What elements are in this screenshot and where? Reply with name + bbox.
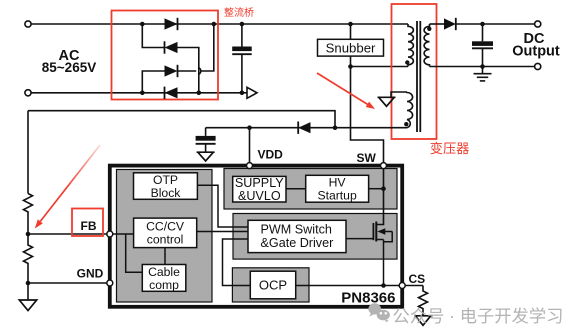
node dot primary bottom: [348, 64, 353, 69]
VDD capacitor C2: [205, 128, 207, 136]
pin GND: [107, 280, 113, 286]
diode D2: [165, 42, 178, 53]
MOSFET Q1: [346, 238, 373, 240]
top gray panel: [224, 169, 397, 210]
svg-text:SW: SW: [357, 151, 377, 165]
bulk capacitor C1: [241, 24, 243, 47]
auxiliary polarity dot: [404, 122, 408, 126]
middle gray panel: [233, 214, 397, 260]
pin VDD: [247, 163, 253, 169]
watermark icon: [368, 303, 389, 322]
wire secondary bottom rail: [430, 66, 535, 68]
node dot top-right bridge: [212, 22, 217, 27]
wire D2 anode to DC-: [178, 48, 199, 93]
secondary earth ground: [482, 67, 484, 74]
wire CC/CV to cable comp: [164, 248, 166, 265]
node dot C1 bottom: [240, 91, 245, 96]
wire FB to cable comp: [126, 234, 143, 272]
wire secondary top to output: [430, 23, 445, 25]
VDD rail wire: [206, 127, 407, 129]
transformer core: [416, 21, 418, 132]
HV Startup box: [306, 175, 369, 202]
diode D1: [165, 18, 178, 29]
wire VDD pin vertical: [249, 128, 251, 164]
svg-text:OCP: OCP: [259, 278, 287, 293]
IC PN8366 outline: [110, 166, 402, 307]
node dot VDD pin drop: [247, 125, 252, 130]
AC input terminal bottom: [25, 90, 31, 96]
svg-text:control: control: [147, 233, 184, 247]
wire MOSFET source down to CS row: [383, 240, 385, 286]
node dot source-CS: [381, 283, 386, 288]
AC input terminal top: [25, 21, 31, 27]
FB red box: [72, 209, 103, 237]
output capacitor C3: [482, 24, 484, 41]
node dot C3 bottom: [480, 64, 485, 69]
svg-text:comp: comp: [149, 278, 179, 292]
wire PWM to OCP/CS: [223, 239, 251, 286]
node dot GND: [26, 281, 31, 286]
svg-text:Output: Output: [512, 43, 560, 59]
rectifier bridge red box: [112, 11, 219, 100]
wire divider top run: [28, 111, 335, 128]
wire FB internal: [110, 233, 134, 235]
wire FB to pin: [28, 233, 108, 235]
DC output terminal bottom: [535, 63, 541, 69]
primary polarity dot: [405, 60, 409, 64]
svg-text:&UVLO: &UVLO: [238, 189, 281, 203]
PWM Switch & Gate Driver box: [248, 220, 346, 252]
bottom gray panel: [232, 268, 309, 302]
svg-text:Snubber: Snubber: [326, 40, 376, 55]
svg-text:GND: GND: [77, 267, 104, 281]
transformer red box: [392, 4, 437, 139]
OCP box: [250, 271, 295, 299]
left gray panel: [117, 170, 213, 303]
VDD cap arrow ground: [197, 152, 215, 161]
node dot top-left bridge: [140, 22, 145, 27]
resistor R1: [24, 194, 33, 235]
svg-text:85~265V: 85~265V: [42, 60, 96, 75]
SUPPLY & UVLO box: [233, 176, 286, 202]
wire bottom AC rail: [31, 92, 247, 94]
svg-text:&Gate Driver: &Gate Driver: [261, 236, 334, 250]
pin CS: [399, 283, 405, 289]
transformer primary winding: [408, 24, 413, 67]
divider ground: [27, 283, 29, 300]
wire D3 branch: [142, 71, 164, 93]
svg-text:CS: CS: [409, 272, 426, 286]
svg-text:FB: FB: [81, 219, 97, 233]
svg-text:CC/CV: CC/CV: [146, 220, 185, 234]
svg-text:PWM Switch: PWM Switch: [261, 223, 332, 237]
DC output terminal top: [535, 21, 541, 27]
svg-text:Block: Block: [151, 186, 182, 200]
node dot bottom-mid bridge: [197, 91, 202, 96]
node dot C3 top: [480, 22, 485, 27]
node dot snubber top: [348, 22, 353, 27]
wire aux top to arrow ground: [391, 92, 407, 97]
transformer auxiliary winding: [407, 92, 413, 128]
red annotation arrow (transformer): [317, 73, 368, 105]
output diode D5: [444, 18, 456, 29]
wire snubber bottom to SW: [351, 56, 384, 162]
wire OTP to PWM: [197, 185, 248, 227]
aux arrow ground: [378, 97, 396, 106]
wire diode to DC+ terminal: [456, 23, 535, 25]
OTP Block box: [134, 173, 198, 200]
node dot FB: [26, 232, 31, 237]
node dot bottom-left bridge: [140, 91, 145, 96]
node dot C1 top: [240, 22, 245, 27]
svg-text:VDD: VDD: [258, 148, 284, 162]
transformer secondary winding: [424, 24, 429, 67]
pin FB: [107, 231, 113, 237]
wire SW internal vertical: [376, 166, 383, 225]
CC/CV control box: [134, 218, 197, 248]
CS arrow ground: [414, 316, 432, 326]
primary ground arrow (open right triangle at end of bottom rail): [247, 87, 257, 98]
node dot HV-SW: [381, 186, 386, 191]
VDD rectifier diode D6: [298, 122, 310, 133]
CS external wire: [405, 285, 423, 287]
svg-text:变压器: 变压器: [430, 141, 470, 156]
wire top AC rail: [31, 23, 408, 25]
svg-text:整流桥: 整流桥: [224, 6, 254, 19]
resistor R3: [419, 286, 428, 316]
svg-text:Startup: Startup: [317, 188, 357, 202]
diode D4: [165, 87, 178, 98]
svg-text:公众号 · 电子开发学习: 公众号 · 电子开发学习: [393, 306, 564, 326]
wire D3 cathode to DC+ (with hop over vertical): [178, 70, 197, 72]
diode D3: [165, 65, 178, 76]
wire D2 branch: [142, 24, 164, 48]
wire HV to SW line: [369, 188, 384, 190]
pin SW: [381, 163, 387, 169]
wire primary bottom: [351, 66, 409, 68]
Cable comp box: [142, 265, 186, 292]
node dot divider tap: [333, 125, 338, 130]
wire OCP to CS pin: [296, 285, 402, 287]
wire SUPPLY to HV: [286, 188, 306, 190]
resistor R2: [24, 234, 33, 283]
secondary polarity dot: [427, 27, 431, 31]
divider wire left vertical: [27, 111, 29, 194]
snubber box: [318, 39, 384, 56]
wire CC/CV to PWM: [197, 231, 248, 233]
svg-text:PN8366: PN8366: [341, 289, 395, 306]
snubber connection wire: [350, 24, 352, 39]
wire GND to pin: [28, 282, 108, 284]
